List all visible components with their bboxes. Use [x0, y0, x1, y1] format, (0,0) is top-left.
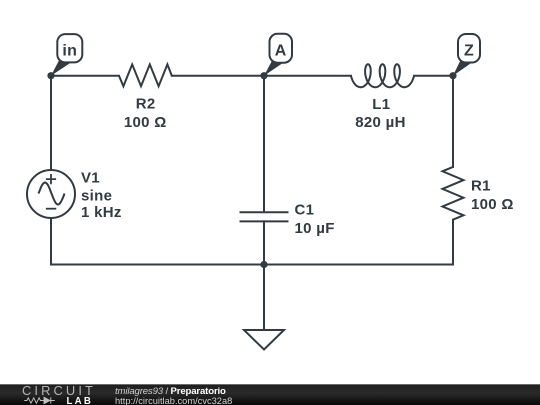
wire: node Z down to R1 [452, 76, 454, 167]
resistor R1 [443, 167, 464, 220]
wire: C1 to bottom rail [263, 221, 265, 264]
node dot A [260, 72, 267, 79]
node dot Z [449, 72, 456, 79]
wire: bottom rail [51, 264, 453, 266]
V1 sine wave [39, 183, 65, 205]
svg-text:L1: L1 [372, 96, 390, 113]
wire: L1 to node Z [414, 75, 453, 77]
wire: ground stem [263, 265, 265, 331]
svg-text:1 kHz: 1 kHz [81, 204, 122, 221]
logo diode [44, 397, 55, 403]
svg-text:R2: R2 [136, 95, 156, 112]
ground symbol [244, 330, 284, 350]
wire: R2 to node A [172, 75, 264, 77]
junction dot ground/bottom rail [260, 261, 267, 268]
credits line 2 [115, 396, 232, 405]
wire: V1 bottom to bottom rail [50, 218, 52, 265]
svg-text:10 µF: 10 µF [295, 220, 335, 237]
svg-text:100 Ω: 100 Ω [124, 114, 167, 131]
svg-text:C1: C1 [295, 202, 315, 219]
voltage source V1 [27, 170, 75, 218]
footer bar [0, 384, 540, 405]
wire: node A to L1 [264, 75, 351, 77]
node Z bubble box [458, 34, 480, 63]
capacitor C1 [240, 211, 289, 213]
node in bubble box [57, 34, 82, 62]
svg-text:100 Ω: 100 Ω [471, 196, 514, 213]
logo resistor zigzag [24, 397, 44, 402]
node dot in [47, 72, 54, 79]
svg-text:820 µH: 820 µH [355, 114, 405, 131]
svg-text:V1: V1 [81, 169, 100, 186]
V1 plus sign [46, 174, 56, 184]
svg-text:in: in [62, 43, 77, 60]
resistor R2 [119, 64, 172, 86]
CircuitLab logo text CIRCUIT [22, 383, 96, 398]
wire: R1 to bottom rail [452, 220, 454, 265]
V1 minus sign [46, 208, 56, 210]
node A bubble box [270, 34, 293, 63]
wire: top-left node to R2 [51, 75, 119, 77]
node A bubble tail [264, 57, 283, 76]
node in bubble tail [51, 58, 70, 76]
CircuitLab logo symbols + LAB [22, 396, 67, 405]
wire: node A down to C1 [263, 76, 265, 212]
credits line 1 [115, 386, 226, 397]
svg-text:R1: R1 [471, 177, 491, 194]
wire: left vertical top (in node to V1) [50, 76, 52, 170]
svg-text:A: A [275, 43, 287, 60]
inductor L1 [351, 64, 414, 87]
node Z bubble tail [453, 57, 471, 76]
svg-text:sine: sine [81, 187, 112, 204]
svg-text:Z: Z [464, 43, 474, 60]
